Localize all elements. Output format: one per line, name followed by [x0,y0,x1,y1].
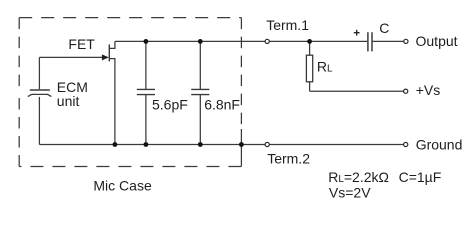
node junction dot case ground [239,142,244,147]
terminal Ground circle [404,142,408,146]
wire top rail (drain to cap C) [115,40,367,42]
wire top rail (cap C to Output) [373,40,404,42]
transistor FET gate arrow [102,54,109,60]
svg-text:Ground: Ground [416,136,463,152]
node junction dot cap 5.6pF top [144,39,149,44]
node junction dot FET source bottom [113,142,118,147]
capacitor C plates [368,32,372,51]
mic case dashed enclosure [19,18,241,167]
svg-text:unit: unit [57,93,80,109]
wire gate net (ECM to FET gate) [39,56,103,58]
svg-text:+Vs: +Vs [416,82,441,98]
svg-text:C=1µF: C=1µF [399,169,442,185]
transistor FET drain lead [109,41,115,48]
svg-text:Mic Case: Mic Case [93,178,152,194]
terminal Output circle [404,39,408,43]
svg-text:Vs=2V: Vs=2V [329,185,371,201]
svg-text:Term.1: Term.1 [266,17,309,33]
transistor FET source lead [109,59,115,145]
node junction dot RL top [307,39,312,44]
wire bottom rail (ground net) [39,144,403,146]
svg-text:RL=2.2kΩ: RL=2.2kΩ [328,169,389,185]
svg-text:RL: RL [317,58,333,74]
wire +Vs feed [310,90,404,92]
svg-text:Output: Output [416,33,458,49]
svg-text:5.6pF: 5.6pF [152,97,188,113]
node junction dot cap 6.8nF bottom [198,142,203,147]
svg-text:6.8nF: 6.8nF [204,97,240,113]
capacitor 6.8nF [191,41,209,144]
terminal Term.1 circle [265,39,269,43]
node junction dot cap 5.6pF bottom [144,142,149,147]
capacitor 5.6pF [137,41,155,144]
terminal Term.2 circle [265,142,269,146]
polarity plus mark [354,30,360,36]
transistor FET channel bar [108,44,110,61]
node junction dot cap 6.8nF top [198,39,203,44]
svg-text:C: C [379,20,389,36]
terminal +Vs circle [404,89,408,93]
ECM unit electret capsule C0 [28,57,52,144]
resistor RL [306,41,312,91]
svg-text:Term.2: Term.2 [267,151,310,167]
svg-text:FET: FET [68,36,95,52]
